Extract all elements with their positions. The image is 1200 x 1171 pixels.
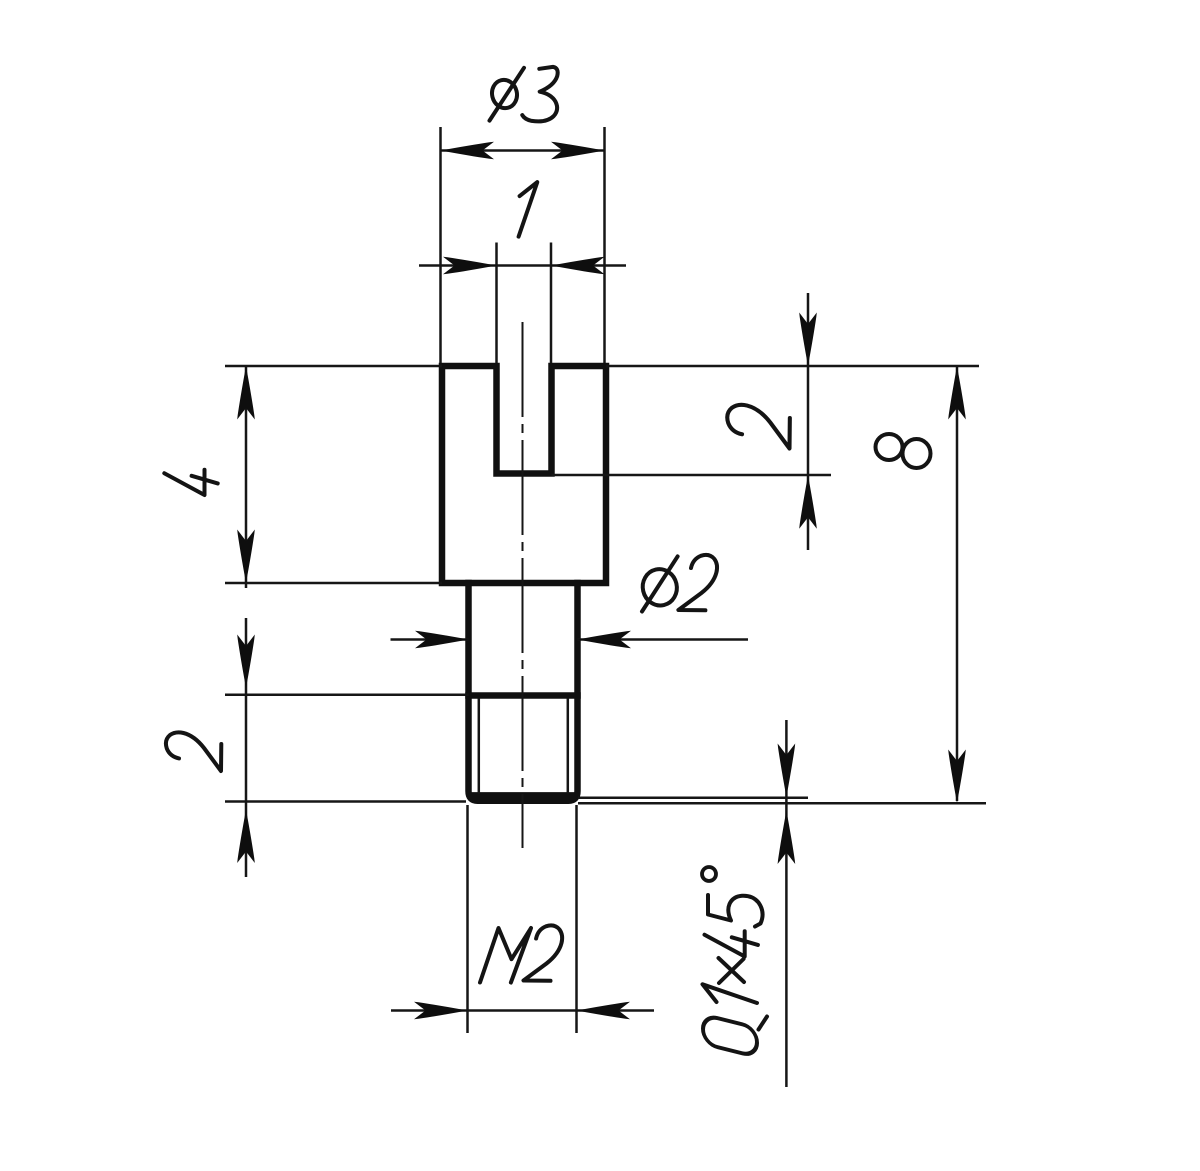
dimension 2 left arrow top xyxy=(237,635,255,689)
thread minor diameter line left xyxy=(478,698,481,794)
dimension 1 text xyxy=(519,182,538,237)
dimension 1 extension right xyxy=(550,243,553,364)
dimension ø2 arrow right xyxy=(578,631,632,649)
dimension ø3 extension right xyxy=(603,127,606,363)
dimension ø2 line left xyxy=(391,638,469,641)
dimension 2 left arrow bottom xyxy=(237,810,255,864)
dimension M2 extension right xyxy=(575,805,578,1033)
dimension chamfer line xyxy=(785,720,788,1087)
dimension 2 right line xyxy=(807,293,810,550)
part outline: shaft and threaded section with rounded bottom xyxy=(469,583,578,801)
dimension M2 line xyxy=(391,1009,654,1012)
dimension 1 line xyxy=(419,264,626,267)
thread start line xyxy=(469,692,578,699)
dimension 1 arrow left xyxy=(443,257,497,275)
dimension M2 text xyxy=(480,925,562,982)
extension line head top left xyxy=(225,365,442,368)
extension line part bottom left xyxy=(225,800,466,803)
dimension 8 line xyxy=(956,366,959,801)
dimension 1 arrow right xyxy=(551,257,605,275)
dimension 8 arrow top xyxy=(948,366,966,420)
dimension ø2 line right xyxy=(578,638,749,641)
dimension ø3 text xyxy=(489,67,557,122)
dimension ø3 arrow right xyxy=(551,142,605,160)
dimension ø2 text xyxy=(639,555,717,612)
extension line thread start left xyxy=(225,694,469,697)
extension line chamfer right short xyxy=(578,797,808,800)
dimension M2 extension left xyxy=(466,805,469,1033)
dimension 2 right arrow bottom xyxy=(799,475,817,529)
thread minor diameter line right xyxy=(567,698,570,794)
dimension ø3 extension left xyxy=(439,127,442,363)
dimension 2 left line xyxy=(245,618,248,877)
dimension 4 arrow bottom xyxy=(237,530,255,584)
centerline xyxy=(522,322,524,848)
dimension chamfer arrow bottom xyxy=(778,811,796,865)
part outline: slotted head xyxy=(442,366,606,583)
dimension ø3 arrow left xyxy=(441,142,495,160)
dimension chamfer arrow top xyxy=(778,744,796,798)
dimension 4 arrow top xyxy=(237,366,255,420)
dimension 4 line xyxy=(245,366,248,588)
extension line head bottom left xyxy=(225,582,442,585)
dimension 2 left text xyxy=(166,732,221,771)
dimension ø3 line xyxy=(441,149,605,152)
extension line part bottom right long xyxy=(578,802,986,805)
chamfer edge line at bottom xyxy=(471,792,575,799)
dimension 2 right text xyxy=(727,405,790,449)
dimension chamfer text 0,1x45deg xyxy=(702,867,767,1057)
dimension M2 arrow left xyxy=(414,1002,468,1020)
dimension 8 arrow bottom xyxy=(948,750,966,804)
extension line slot bottom right xyxy=(552,474,832,477)
dimension 8 text xyxy=(876,434,931,468)
dimension 4 text xyxy=(164,470,217,495)
dimension 1 extension left xyxy=(495,243,498,364)
dimension ø2 arrow left xyxy=(415,631,469,649)
extension line head top right xyxy=(606,365,979,368)
dimension 2 right arrow top xyxy=(799,313,817,367)
dimension M2 arrow right xyxy=(577,1002,631,1020)
